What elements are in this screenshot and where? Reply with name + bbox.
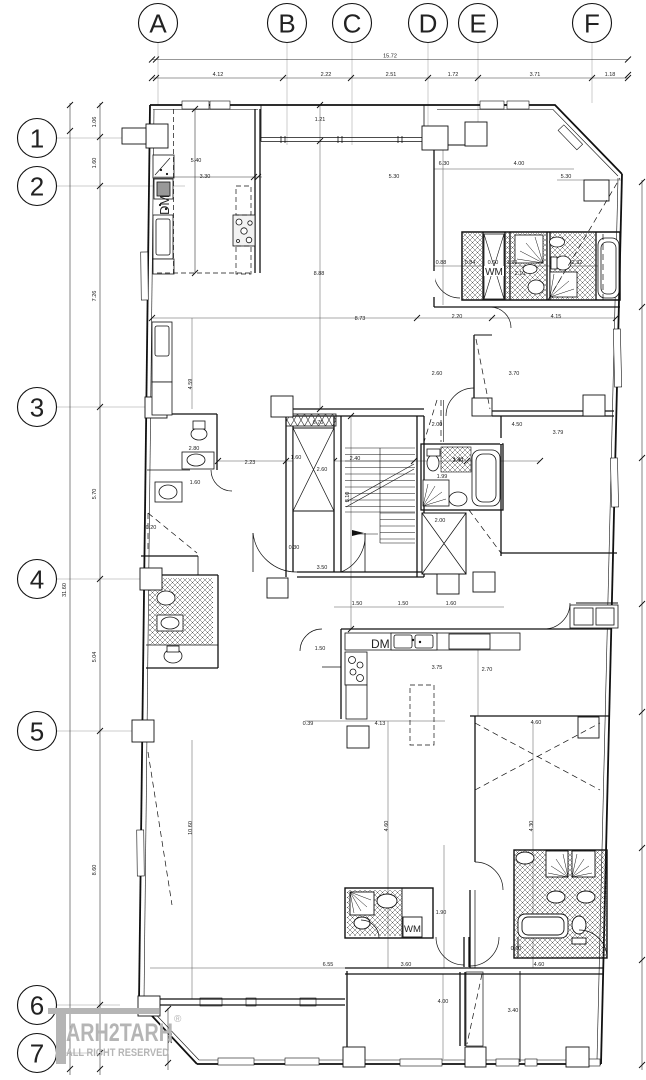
svg-text:WM: WM (404, 924, 421, 935)
svg-text:15.72: 15.72 (383, 54, 397, 60)
svg-text:1.18: 1.18 (605, 72, 616, 78)
svg-text:3.70: 3.70 (509, 371, 520, 377)
svg-text:®: ® (174, 1014, 182, 1025)
svg-text:WM: WM (485, 267, 503, 278)
svg-text:D: D (419, 9, 438, 39)
svg-text:4.12: 4.12 (213, 72, 224, 78)
svg-text:1.50: 1.50 (398, 601, 409, 607)
svg-text:6: 6 (30, 991, 44, 1021)
svg-text:0.88: 0.88 (436, 260, 447, 266)
svg-text:1.60: 1.60 (446, 601, 457, 607)
svg-text:1.30: 1.30 (507, 260, 518, 266)
svg-text:DM: DM (157, 195, 172, 215)
svg-text:4.60: 4.60 (531, 720, 542, 726)
svg-text:1.06: 1.06 (92, 117, 98, 128)
svg-text:0.84: 0.84 (465, 260, 476, 266)
svg-text:4.13: 4.13 (375, 721, 386, 727)
svg-text:1.60: 1.60 (92, 158, 98, 169)
svg-text:0.60: 0.60 (488, 260, 499, 266)
svg-text:5.04: 5.04 (92, 652, 98, 663)
svg-text:5.40: 5.40 (191, 158, 202, 164)
svg-text:3.30: 3.30 (200, 174, 211, 180)
svg-text:2.23: 2.23 (245, 460, 256, 466)
svg-text:6.55: 6.55 (323, 962, 334, 968)
svg-text:31.60: 31.60 (62, 583, 68, 597)
svg-text:1: 1 (30, 124, 44, 154)
svg-text:8.88: 8.88 (314, 271, 325, 277)
svg-text:2.32: 2.32 (572, 260, 583, 266)
svg-text:2: 2 (30, 172, 44, 202)
svg-text:3.50: 3.50 (317, 565, 328, 571)
svg-text:7.26: 7.26 (92, 291, 98, 302)
svg-text:2.70: 2.70 (482, 667, 493, 673)
svg-text:E: E (469, 9, 486, 39)
svg-text:2.20: 2.20 (452, 314, 463, 320)
svg-text:3.71: 3.71 (530, 72, 541, 78)
svg-text:7: 7 (30, 1039, 44, 1069)
svg-text:3.79: 3.79 (553, 430, 564, 436)
svg-text:2.40: 2.40 (350, 456, 361, 462)
svg-text:6.70: 6.70 (313, 420, 324, 426)
svg-text:4.30: 4.30 (529, 821, 535, 832)
svg-text:6.30: 6.30 (439, 161, 450, 167)
svg-text:5.10: 5.10 (345, 492, 351, 503)
svg-text:2.51: 2.51 (386, 72, 397, 78)
svg-text:0.30: 0.30 (289, 545, 300, 551)
svg-text:0.20: 0.20 (146, 525, 157, 531)
svg-text:4.60: 4.60 (384, 821, 390, 832)
svg-text:2.60: 2.60 (432, 371, 443, 377)
svg-text:3.60: 3.60 (401, 962, 412, 968)
svg-text:ALL RIGHT RESERVED: ALL RIGHT RESERVED (66, 1047, 169, 1059)
svg-text:3: 3 (30, 393, 44, 423)
svg-text:3.40: 3.40 (508, 1008, 519, 1014)
svg-text:B: B (278, 9, 295, 39)
svg-text:0.39: 0.39 (303, 721, 314, 727)
svg-text:ARH2TARH: ARH2TARH (66, 1019, 173, 1047)
svg-text:4: 4 (30, 565, 44, 595)
svg-text:1.72: 1.72 (448, 72, 459, 78)
svg-text:0.60: 0.60 (511, 946, 522, 952)
svg-text:F: F (584, 9, 600, 39)
svg-text:1.99: 1.99 (437, 474, 448, 480)
svg-text:1.50: 1.50 (315, 646, 326, 652)
svg-text:8.60: 8.60 (92, 865, 98, 876)
svg-text:1.21: 1.21 (315, 117, 326, 123)
svg-text:4.00: 4.00 (438, 999, 449, 1005)
svg-text:10.60: 10.60 (188, 821, 194, 835)
svg-text:3.75: 3.75 (432, 665, 443, 671)
svg-text:2.80: 2.80 (189, 446, 200, 452)
svg-text:2.00: 2.00 (432, 422, 443, 428)
svg-text:5.30: 5.30 (389, 174, 400, 180)
svg-text:4.50: 4.50 (512, 422, 523, 428)
svg-text:4.60: 4.60 (534, 962, 545, 968)
svg-text:DM: DM (371, 637, 390, 651)
svg-text:A: A (149, 9, 167, 39)
svg-text:5: 5 (30, 717, 44, 747)
svg-text:2.60: 2.60 (317, 467, 328, 473)
svg-text:1.50: 1.50 (352, 601, 363, 607)
svg-text:C: C (343, 9, 362, 39)
svg-text:2.00: 2.00 (435, 518, 446, 524)
svg-text:2.22: 2.22 (321, 72, 332, 78)
svg-text:1.60: 1.60 (291, 455, 302, 461)
svg-text:8.73: 8.73 (355, 316, 366, 322)
svg-text:1.60: 1.60 (190, 480, 201, 486)
svg-text:5.30: 5.30 (561, 174, 572, 180)
svg-text:2.10: 2.10 (515, 271, 526, 277)
svg-text:4.00: 4.00 (514, 161, 525, 167)
svg-text:1.90: 1.90 (436, 910, 447, 916)
svg-text:5.70: 5.70 (92, 489, 98, 500)
svg-text:4.15: 4.15 (551, 314, 562, 320)
svg-text:1.40: 1.40 (453, 457, 464, 463)
svg-text:4.59: 4.59 (188, 379, 194, 390)
